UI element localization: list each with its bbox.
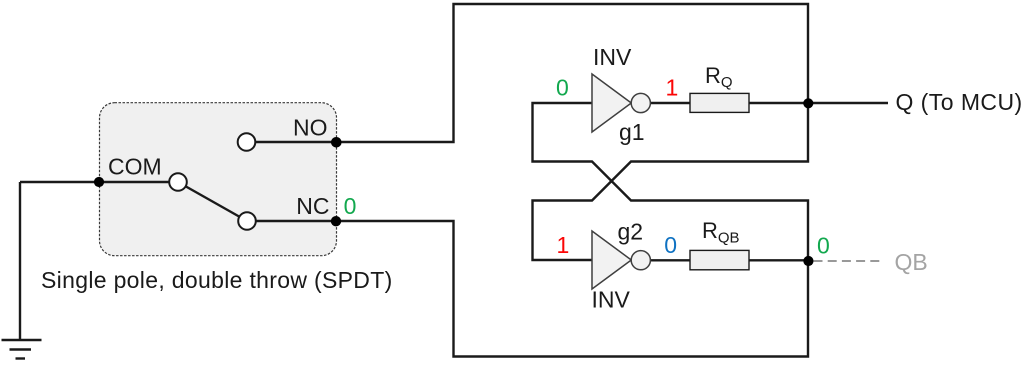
svg-text:1: 1 xyxy=(557,232,570,258)
svg-text:Single pole, double throw (SPD: Single pole, double throw (SPDT) xyxy=(41,267,393,293)
svg-text:QB: QB xyxy=(895,249,928,275)
svg-text:RQ: RQ xyxy=(705,63,733,91)
svg-text:1: 1 xyxy=(666,75,679,101)
svg-text:RQB: RQB xyxy=(702,218,740,247)
svg-text:0: 0 xyxy=(664,232,677,258)
svg-text:COM: COM xyxy=(108,154,162,180)
svg-text:NC: NC xyxy=(296,193,329,219)
svg-text:INV: INV xyxy=(593,44,632,70)
svg-text:NO: NO xyxy=(293,115,328,141)
svg-text:g1: g1 xyxy=(619,119,645,145)
svg-text:g2: g2 xyxy=(618,219,644,245)
svg-text:Q (To MCU): Q (To MCU) xyxy=(896,89,1023,115)
svg-text:INV: INV xyxy=(592,287,631,313)
svg-text:0: 0 xyxy=(556,75,569,101)
svg-text:0: 0 xyxy=(817,232,830,258)
svg-text:0: 0 xyxy=(344,193,357,219)
